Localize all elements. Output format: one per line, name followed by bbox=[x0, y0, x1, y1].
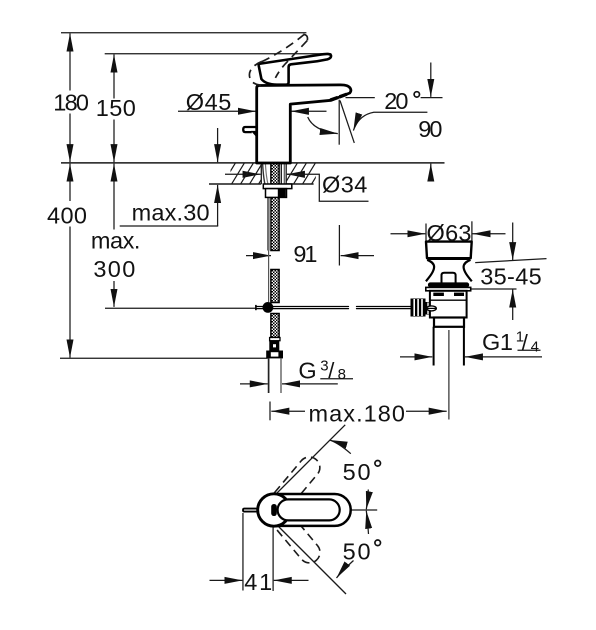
drain overflow slots bbox=[433, 293, 444, 296]
svg-text:150: 150 bbox=[96, 95, 136, 121]
svg-text:8: 8 bbox=[338, 366, 346, 383]
svg-text:G1: G1 bbox=[482, 329, 513, 355]
drain body bbox=[430, 291, 467, 318]
svg-text:400: 400 bbox=[47, 203, 87, 229]
dimension 41 bbox=[242, 513, 244, 591]
faucet body and spout bbox=[257, 85, 351, 163]
drain stem bbox=[442, 273, 456, 283]
ref line top of lever tip (150) bbox=[105, 53, 332, 55]
ref line top of handle (180) bbox=[61, 32, 306, 34]
svg-text:35-45: 35-45 bbox=[480, 264, 542, 290]
drain lock ring bbox=[434, 318, 464, 327]
50 deg lower diagonal line bbox=[264, 512, 346, 594]
faucet plan lever slot bbox=[271, 504, 277, 516]
drain body divider bbox=[430, 299, 467, 301]
knurled adjuster knob bbox=[411, 299, 426, 317]
drain plug bottom thick edge bbox=[427, 257, 470, 260]
20 deg slanted line bbox=[340, 101, 354, 143]
G3/8 underline bbox=[320, 378, 353, 380]
countertop hatching bbox=[222, 162, 325, 185]
faucet plan body circle bbox=[258, 494, 290, 526]
G1 1/4 underline bbox=[518, 349, 541, 351]
shank right lines in hole bbox=[280, 163, 282, 184]
20 deg vertical line bbox=[338, 100, 340, 145]
Ø34 leader step bbox=[287, 174, 369, 201]
20 deg left arc arrow bbox=[308, 117, 338, 134]
svg-text:max.: max. bbox=[91, 227, 140, 253]
svg-text:4: 4 bbox=[531, 339, 539, 356]
dimension line 150 bbox=[113, 54, 115, 98]
dimension G1 1/4 arrows bbox=[400, 356, 432, 358]
dashed lever raised tip bbox=[303, 35, 307, 41]
rod left end cap bbox=[255, 305, 257, 310]
50 deg lower arc arrow at centerline bbox=[366, 511, 368, 534]
svg-text:/: / bbox=[328, 358, 335, 383]
drain plug top bbox=[426, 242, 472, 259]
dimension 91 arrows bbox=[246, 255, 271, 257]
50 deg upper arc arrow at diagonal bbox=[330, 440, 351, 454]
35-45 lower ref line bbox=[469, 288, 517, 290]
hose ferrule bbox=[270, 338, 280, 341]
svg-text:50: 50 bbox=[343, 538, 371, 564]
flexible hose below bbox=[268, 358, 270, 393]
svg-text:91: 91 bbox=[293, 241, 317, 267]
dimension max.30 arrows bbox=[217, 128, 219, 162]
50 deg upper diagonal line bbox=[262, 425, 345, 508]
shank braided hose band (counter to break) bbox=[271, 163, 279, 251]
svg-text:90: 90 bbox=[418, 116, 442, 142]
faucet plan handle obround bbox=[278, 499, 340, 520]
svg-text:Ø45: Ø45 bbox=[186, 89, 232, 115]
dimension Ø34 arrows bbox=[225, 173, 261, 175]
svg-text:max.180: max.180 bbox=[309, 400, 406, 426]
ref line counter surface extended bbox=[61, 162, 445, 164]
mounting washer bbox=[263, 184, 292, 189]
ref line 400 bottom bbox=[60, 357, 268, 359]
drain tailpipe bbox=[434, 327, 464, 366]
pull rod knob on body bbox=[243, 127, 257, 132]
shank hose curve lines bbox=[263, 164, 268, 251]
20 deg horizontal ref line bbox=[346, 97, 375, 99]
dimension max.180 bbox=[269, 402, 271, 421]
hose end fitting bbox=[269, 341, 279, 351]
dashed handle plan upper (50 deg) bbox=[268, 453, 324, 514]
dimension Ø45 arrows bbox=[178, 110, 256, 112]
svg-text:G: G bbox=[298, 358, 316, 384]
countertop underside line bbox=[209, 183, 314, 185]
ref line max.300 bottom bbox=[105, 307, 256, 309]
dashed handle plan lower (50 deg) bbox=[268, 506, 324, 567]
dimension G3/8 arrows bbox=[240, 383, 268, 385]
braided band below break bbox=[271, 270, 279, 303]
svg-text:Ø34: Ø34 bbox=[322, 171, 367, 197]
20 deg label leader with arc arrow bbox=[353, 112, 427, 130]
svg-text:/: / bbox=[522, 330, 529, 355]
mounting nut bbox=[266, 189, 287, 198]
drain seal ring bbox=[428, 282, 469, 287]
horizontal pull rod to drain bbox=[256, 307, 411, 309]
pull rod thin line through break bbox=[268, 251, 270, 303]
50 deg lower arc arrow at diagonal bbox=[337, 561, 354, 579]
dimension line 400 bbox=[69, 164, 71, 201]
dimension Ø63 bbox=[425, 224, 427, 242]
35-45 slanted ref line bbox=[475, 259, 546, 263]
plan view centerline right bbox=[351, 509, 377, 511]
faucet plan aerator protrusion bbox=[243, 509, 258, 512]
drain neck bbox=[426, 260, 472, 282]
braided band below ball bbox=[271, 314, 279, 338]
dashed lever raised back loop bbox=[249, 61, 264, 85]
dimension line 180 bbox=[69, 33, 71, 90]
dimension line max.300 bbox=[113, 164, 115, 230]
dimension 35-45 bbox=[512, 223, 514, 261]
svg-text:180: 180 bbox=[53, 90, 89, 116]
ball joint bbox=[263, 302, 274, 313]
50 deg upper arc arrow at centerline bbox=[366, 490, 368, 510]
dimension 90 arrows bbox=[430, 63, 432, 97]
max.30 underline bbox=[120, 225, 219, 227]
dashed lever raised lower edge bbox=[275, 41, 307, 78]
svg-text:41: 41 bbox=[244, 569, 272, 595]
hex connection nut bbox=[266, 351, 283, 359]
svg-text:max.30: max.30 bbox=[132, 199, 210, 225]
lever handle bbox=[259, 54, 331, 85]
drain centerline bbox=[448, 330, 450, 420]
91 extension line at spout bbox=[338, 225, 340, 266]
svg-text:300: 300 bbox=[93, 256, 135, 282]
aerator outlet bbox=[330, 94, 347, 100]
drain flange bbox=[426, 287, 471, 290]
clevis screw bbox=[427, 306, 437, 311]
counter hole edges bbox=[260, 163, 262, 184]
svg-text:50: 50 bbox=[343, 459, 371, 485]
faucet plan outer outline bbox=[258, 494, 351, 526]
svg-text:20: 20 bbox=[384, 88, 408, 114]
svg-text:Ø63: Ø63 bbox=[427, 220, 472, 246]
dashed lever raised upper edge bbox=[262, 35, 304, 62]
